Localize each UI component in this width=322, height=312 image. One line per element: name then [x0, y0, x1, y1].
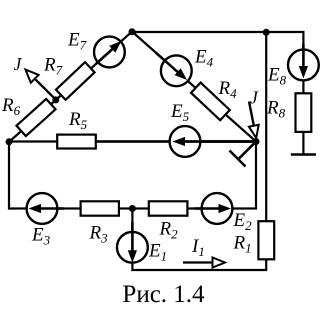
svg-text:E7: E7	[67, 30, 87, 53]
svg-text:R5: R5	[68, 109, 88, 132]
current arrow I1	[183, 261, 214, 263]
resistor R7	[56, 62, 95, 100]
svg-text:E4: E4	[194, 47, 214, 70]
resistor R4	[191, 83, 230, 121]
resistor R6	[16, 99, 55, 136]
wire diagonal R6-R7-E7 branch	[9, 32, 132, 143]
emf E2	[202, 193, 233, 224]
svg-text:R2: R2	[159, 219, 179, 242]
current source J arrow (left)	[36, 80, 57, 100]
emf E1	[117, 232, 148, 263]
svg-text:E8: E8	[267, 65, 287, 88]
node C	[253, 138, 260, 145]
resistor R8	[296, 93, 312, 132]
emf E5	[170, 126, 201, 157]
wire left vertical	[8, 141, 10, 210]
wire R1 branch vertical	[265, 32, 267, 221]
emf E3	[27, 193, 58, 224]
resistor R3	[81, 201, 119, 215]
svg-text:R3: R3	[89, 223, 109, 246]
svg-text:R4: R4	[218, 78, 238, 101]
svg-text:R6: R6	[1, 95, 21, 118]
node B top right junction	[263, 29, 270, 36]
wire bottom horizontal	[131, 269, 267, 271]
resistor R2	[149, 201, 188, 215]
svg-text:R7: R7	[43, 55, 63, 78]
wire under R1	[265, 260, 267, 271]
svg-text:J: J	[250, 88, 259, 108]
node A top	[129, 28, 136, 35]
wire E1 branch vertical	[131, 208, 133, 272]
resistor R1	[258, 221, 274, 259]
node left	[6, 138, 13, 145]
svg-text:J: J	[14, 54, 23, 74]
current source tail crossbar	[230, 151, 246, 167]
current source J arrow (right)	[249, 102, 254, 127]
emf E4	[161, 55, 192, 86]
ground	[291, 153, 316, 156]
svg-text:E2: E2	[233, 210, 253, 233]
svg-text:R1: R1	[233, 233, 252, 256]
wire R8 to ground	[302, 132, 304, 154]
resistor R5	[57, 135, 96, 149]
node bottom junction	[129, 205, 136, 212]
svg-text:E1: E1	[148, 241, 167, 264]
wire E8 branch circle to R8	[302, 80, 304, 94]
emf E8	[288, 50, 319, 81]
svg-text:E3: E3	[31, 225, 51, 248]
node R6-R7 junction	[52, 96, 59, 103]
svg-text:R8: R8	[266, 98, 286, 121]
svg-text:E5: E5	[170, 101, 190, 124]
current source tail stub	[239, 142, 255, 158]
svg-text:Рис. 1.4: Рис. 1.4	[122, 281, 205, 308]
wire top horizontal	[132, 32, 303, 50]
wire middle horizontal	[9, 140, 256, 142]
emf E7	[94, 37, 125, 68]
wire bottom-mid horizontal and up to node C	[9, 141, 256, 209]
svg-text:I1: I1	[191, 236, 205, 259]
wire diagonal E4-R4 branch	[132, 32, 256, 142]
